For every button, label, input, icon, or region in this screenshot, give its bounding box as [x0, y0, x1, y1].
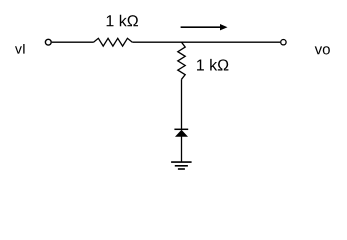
wire from resistor R1 to node vO terminal	[132, 41, 280, 43]
resistor R2 (vertical zigzag)	[178, 42, 185, 79]
current direction arrow	[181, 24, 228, 30]
resistor R1 (horizontal zigzag)	[94, 38, 133, 46]
wire from diode D1 to ground	[181, 137, 183, 163]
value label 1 kΩ for R2	[197, 59, 228, 71]
ground symbol	[171, 162, 192, 169]
label vO	[315, 46, 330, 54]
wire from vI terminal to resistor R1	[52, 41, 94, 43]
node vO terminal circle	[281, 40, 286, 45]
label vI	[15, 44, 25, 54]
diode D1 (cathode bar on top, triangle pointing up)	[174, 129, 188, 136]
wire from resistor R2 to diode D1	[181, 79, 183, 129]
node vI terminal circle	[45, 39, 51, 45]
value label 1 kΩ for R1	[107, 15, 138, 27]
